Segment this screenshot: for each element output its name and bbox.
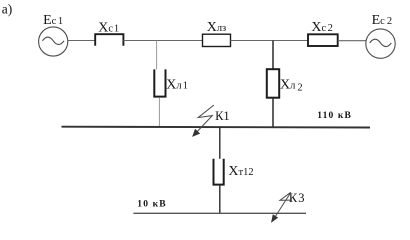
wire Xt12 to 10kV bus — [219, 186, 221, 214]
wire node A down to Xl1 — [156, 41, 158, 70]
svg-text:а): а) — [2, 2, 13, 17]
svg-text:Xт12: Xт12 — [228, 164, 253, 179]
svg-text:110 кВ: 110 кВ — [317, 111, 352, 121]
10 kV bus — [133, 212, 306, 214]
110 kV bus — [62, 126, 371, 129]
svg-text:Xлз: Xлз — [207, 20, 227, 35]
svg-text:Ес1: Ес1 — [43, 13, 63, 28]
reactance Xl1 — [154, 69, 165, 96]
fault K3 — [272, 192, 292, 222]
svg-text:10 кВ: 10 кВ — [137, 200, 166, 210]
svg-text:Xс1: Xс1 — [98, 20, 119, 35]
reactance Xl3 — [203, 34, 231, 46]
wire Ec1 to Xc1 — [68, 40, 95, 42]
svg-text:К1: К1 — [215, 109, 230, 123]
reactance Xl2 — [267, 69, 279, 98]
wire 110kV bus to Xt12 — [219, 127, 221, 159]
wire Xl1 to 110kV bus — [158, 97, 160, 126]
wire Xl2 to 110kV bus — [272, 98, 274, 127]
wire Xl3 to Xc2 — [231, 40, 309, 42]
wire Xc1 to Xl3 — [123, 40, 202, 42]
wire node B down to Xl2 — [272, 41, 274, 70]
reactance Xc2 — [308, 34, 338, 46]
generator Ec1 — [39, 27, 68, 56]
svg-text:Xл1: Xл1 — [166, 77, 188, 92]
reactance Xc1 — [95, 34, 123, 46]
svg-text:Ес2: Ес2 — [372, 13, 392, 28]
fault K1 — [193, 105, 214, 136]
svg-text:Xс2: Xс2 — [311, 20, 332, 35]
svg-text:К3: К3 — [289, 191, 305, 205]
generator Ec2 — [366, 29, 395, 58]
wire Xc2 to Ec2 — [338, 40, 366, 42]
reactance Xt12 — [214, 159, 224, 185]
